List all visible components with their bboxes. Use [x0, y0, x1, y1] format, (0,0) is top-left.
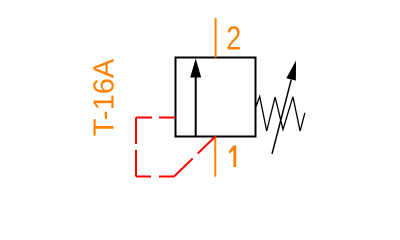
svg-text:T-16A: T-16A: [89, 58, 121, 136]
spring (zigzag): [256, 97, 305, 132]
spring adjustment arrowhead: [286, 61, 296, 81]
port 2 line (top, orange): [215, 18, 217, 58]
flow path arrow shaft inside valve: [195, 77, 197, 137]
pilot line segment (dashed red, diagonal to port 1 junction): [174, 137, 215, 177]
spring adjustment arrow shaft: [272, 80, 291, 154]
svg-text:2: 2: [226, 21, 241, 57]
valve body (square envelope): [176, 58, 256, 137]
pilot line segment (dashed red, bottom horizontal): [136, 176, 174, 178]
pilot line segment (dashed red, vertical): [135, 118, 137, 177]
pilot line segment (dashed red, from valve left side going left): [136, 117, 175, 119]
flow path arrowhead: [190, 59, 201, 78]
port 1 line (bottom, orange): [214, 137, 216, 177]
port 1 label (custom glyph, no foot serif): [229, 146, 236, 168]
